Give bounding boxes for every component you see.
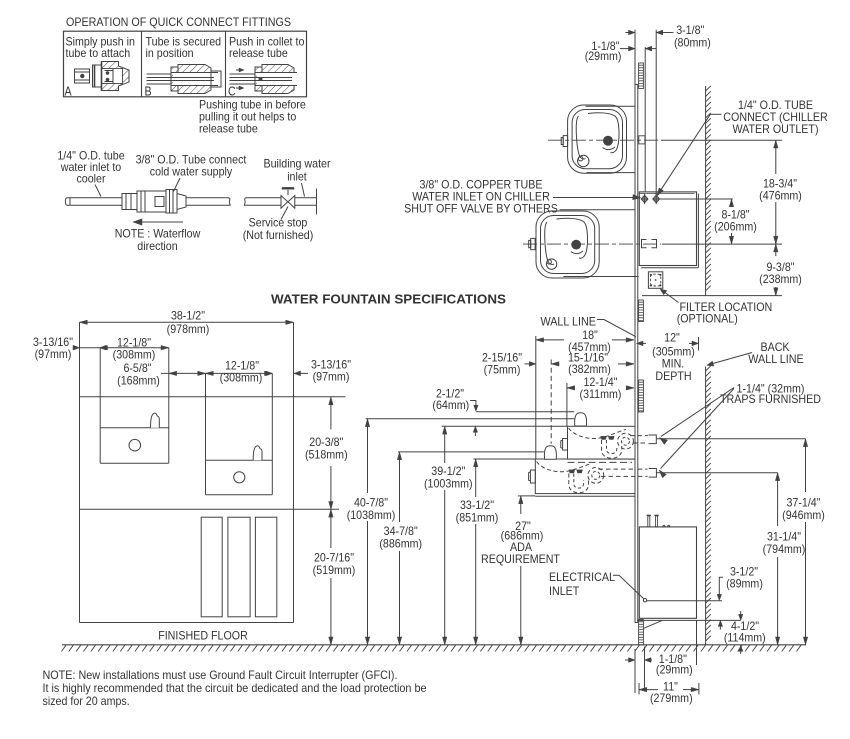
svg-text:OPERATION OF QUICK CONNECT FIT: OPERATION OF QUICK CONNECT FITTINGS bbox=[66, 15, 291, 29]
cabinet bottom edge bbox=[80, 622, 294, 624]
lower water connection dashes bbox=[642, 240, 647, 248]
diagonal base tick bbox=[643, 620, 662, 628]
svg-text:(64mm): (64mm) bbox=[432, 398, 469, 412]
upper basin left edge bbox=[99, 348, 101, 464]
lower unit top edge extension bbox=[474, 458, 536, 460]
fitting B body bbox=[178, 65, 211, 94]
upper centerline extension right bbox=[662, 139, 783, 141]
shut-off valve 2 bbox=[653, 195, 660, 202]
floor line bbox=[62, 644, 806, 646]
chiller bottom double line bbox=[637, 619, 741, 621]
leader copper tube to valve 1 bbox=[553, 197, 638, 199]
svg-text:(978mm): (978mm) bbox=[167, 322, 210, 336]
cabinet right edge bbox=[293, 397, 295, 623]
leader to lower trap bbox=[661, 389, 735, 469]
svg-text:C: C bbox=[228, 85, 236, 99]
upper drain plan bbox=[578, 155, 589, 166]
svg-text:(851mm): (851mm) bbox=[456, 510, 499, 524]
lower basin plan outline bbox=[536, 211, 599, 278]
mounting channel hatch mid1 bbox=[639, 300, 644, 322]
svg-text:NOTE: New installations must u: NOTE: New installations must use Ground … bbox=[43, 668, 398, 682]
louver slat 1 bbox=[201, 517, 222, 617]
building inlet tube bbox=[244, 198, 281, 206]
upper bubbler front view bbox=[151, 413, 160, 428]
lower basin bottom bbox=[206, 494, 273, 496]
filter box bbox=[648, 272, 662, 289]
svg-text:(238mm): (238mm) bbox=[759, 272, 802, 286]
lower trap dashed bbox=[569, 474, 589, 493]
svg-text:(946mm): (946mm) bbox=[782, 508, 825, 522]
dimension 31-1/4 (794mm) bbox=[777, 473, 779, 526]
lower bubbler side view bbox=[544, 446, 556, 460]
svg-text:(29mm): (29mm) bbox=[656, 662, 693, 676]
mounting channel line b bbox=[655, 30, 657, 195]
svg-text:release tube: release tube bbox=[229, 46, 288, 60]
cabinet top edge bbox=[80, 396, 346, 398]
lower drain circle bbox=[234, 472, 245, 483]
leader valve to service stop bbox=[281, 207, 288, 220]
dimension 20-3/8 (518mm) bbox=[330, 397, 332, 430]
back wall line upper segment bbox=[705, 86, 707, 296]
lower basin connect bottom bbox=[563, 276, 638, 278]
upper unit top edge extension bbox=[442, 425, 568, 427]
electrical inlet point bbox=[643, 599, 646, 602]
extension line 18 ref - unit front bbox=[535, 336, 537, 459]
svg-text:INLET: INLET bbox=[549, 584, 579, 598]
upper unit side box bbox=[568, 426, 636, 459]
lower basin left edge bbox=[205, 373, 207, 494]
svg-text:(518mm): (518mm) bbox=[305, 448, 348, 462]
svg-text:(476mm): (476mm) bbox=[759, 189, 802, 203]
shut-off valve line bbox=[659, 198, 733, 200]
leader to upper trap bbox=[661, 388, 734, 437]
31-1/4 reference line bbox=[656, 472, 777, 474]
svg-text:ELECTRICAL: ELECTRICAL bbox=[549, 570, 615, 584]
upper basin bottom bbox=[100, 462, 169, 464]
svg-text:WALL LINE: WALL LINE bbox=[541, 314, 596, 328]
fitting nut bbox=[166, 190, 177, 214]
fitting A body bbox=[102, 62, 130, 91]
svg-text:38-1/2": 38-1/2" bbox=[171, 309, 205, 323]
svg-text:(97mm): (97mm) bbox=[313, 370, 350, 384]
dimension 37-1/4 (946mm) bbox=[805, 439, 807, 492]
fitting C body bbox=[262, 65, 294, 94]
upper bubbler dot bbox=[604, 136, 613, 145]
dimension 33-1/2 (851mm) bbox=[475, 459, 477, 497]
upper water connection on wall bbox=[639, 136, 645, 144]
louver slat 3 bbox=[255, 517, 276, 617]
supply tube (3/8 inch) bbox=[186, 197, 229, 199]
leader to cooler tube bbox=[95, 185, 101, 197]
svg-text:FINISHED FLOOR: FINISHED FLOOR bbox=[158, 629, 248, 643]
extension line right cabinet bbox=[293, 322, 295, 397]
svg-text:12": 12" bbox=[664, 331, 680, 345]
lower spout height line (34-7/8 ref) bbox=[398, 451, 544, 453]
leader to fitting bbox=[174, 178, 181, 192]
upper centerline bbox=[548, 139, 662, 141]
dimension 40-7/8 (1038mm) bbox=[367, 419, 369, 493]
svg-text:It is highly recommended that: It is highly recommended that the circui… bbox=[43, 681, 427, 695]
svg-text:(308mm): (308mm) bbox=[220, 370, 263, 384]
wall line leader bbox=[597, 319, 604, 321]
upper basin right edge bbox=[168, 348, 170, 464]
svg-text:(886mm): (886mm) bbox=[379, 537, 422, 551]
lower button plan bbox=[531, 238, 535, 249]
upper drain fitting bbox=[601, 436, 607, 439]
lower drain fitting bbox=[569, 470, 575, 473]
svg-text:B: B bbox=[145, 85, 152, 99]
lower basin connect top bbox=[560, 209, 636, 211]
service stop valve bbox=[281, 196, 288, 209]
chiller top pins bbox=[648, 516, 650, 527]
electrical leader bbox=[613, 574, 619, 576]
lower basin interior dashed bbox=[537, 462, 591, 472]
svg-text:SHUT OFF VALVE BY OTHERS: SHUT OFF VALVE BY OTHERS bbox=[404, 202, 558, 216]
37-1/4 reference line bbox=[656, 438, 805, 440]
quick-connect panel box bbox=[64, 31, 307, 97]
upper unit button bbox=[563, 439, 568, 451]
svg-text:(308mm): (308mm) bbox=[113, 348, 156, 362]
chiller box lower view bbox=[639, 527, 696, 618]
wall panel back line bbox=[637, 85, 639, 623]
lower centerline extension right bbox=[662, 243, 782, 245]
27 ada bottom reference bbox=[518, 495, 535, 497]
unit bottom reference line bbox=[642, 295, 782, 297]
panel divider 1 bbox=[141, 31, 143, 97]
mounting channel hatch mid2 bbox=[639, 380, 644, 412]
svg-text:(97mm): (97mm) bbox=[35, 347, 72, 361]
lower trap wall stub bbox=[649, 469, 657, 478]
tube after valve bbox=[295, 197, 316, 199]
extension line left cabinet bbox=[79, 322, 81, 397]
lower trap outlet dashed bbox=[599, 468, 635, 470]
svg-text:(519mm): (519mm) bbox=[313, 563, 356, 577]
dimension 9-3/8 (238mm) bbox=[775, 244, 777, 256]
svg-text:(75mm): (75mm) bbox=[484, 363, 521, 377]
upper basin plan outline bbox=[568, 105, 627, 173]
electrical inlet line bbox=[647, 600, 722, 602]
2-1/2 partner arrow bbox=[473, 426, 477, 432]
cabinet left edge bbox=[79, 397, 81, 623]
lower drain plan bbox=[546, 259, 556, 269]
panel foot bbox=[635, 622, 638, 624]
lower unit button bbox=[530, 470, 535, 483]
svg-text:direction: direction bbox=[137, 239, 177, 253]
upper trap wall stub bbox=[649, 435, 657, 444]
svg-text:(80mm): (80mm) bbox=[674, 35, 711, 49]
svg-text:Building water: Building water bbox=[263, 157, 330, 171]
lower unit side box bbox=[535, 459, 635, 494]
lower centerline bbox=[523, 243, 661, 245]
svg-text:REQUIREMENT: REQUIREMENT bbox=[481, 552, 560, 566]
extension line 12-1/4 ref bbox=[566, 383, 568, 426]
svg-text:DEPTH: DEPTH bbox=[655, 369, 691, 383]
shut-off valve 1 bbox=[641, 195, 648, 202]
extension dashed line bubbler center bbox=[550, 360, 552, 444]
svg-text:(168mm): (168mm) bbox=[117, 373, 160, 387]
svg-text:cold water supply: cold water supply bbox=[150, 165, 233, 179]
quick connect fitting body bbox=[122, 194, 137, 210]
back wall leader bbox=[709, 353, 752, 365]
back wall line lower segment bbox=[705, 367, 707, 645]
upper unit hidden bottom dashed bbox=[568, 461, 633, 463]
mounting channel hatch bottom bbox=[639, 620, 644, 645]
dimension 18-3/4 (476mm) bbox=[775, 140, 777, 174]
svg-text:A: A bbox=[65, 85, 73, 99]
svg-text:(89mm): (89mm) bbox=[726, 577, 763, 591]
svg-text:(206mm): (206mm) bbox=[714, 220, 757, 234]
lower bubbler dot bbox=[572, 240, 581, 249]
svg-text:tube to attach: tube to attach bbox=[66, 46, 131, 60]
svg-text:WALL LINE: WALL LINE bbox=[748, 352, 804, 366]
upper bubbler top line (2-1/2 ref) bbox=[476, 411, 574, 413]
mounting channel hatch top bbox=[639, 63, 644, 89]
svg-text:in position: in position bbox=[146, 46, 194, 60]
svg-text:(279mm): (279mm) bbox=[650, 691, 693, 705]
cooler tube (1/4 inch) bbox=[65, 198, 122, 206]
upper trap dashed bbox=[602, 440, 622, 458]
upper basin interior dashed bbox=[569, 428, 627, 438]
mounting channel line a bbox=[644, 47, 646, 192]
svg-text:TRAPS FURNISHED: TRAPS FURNISHED bbox=[720, 392, 821, 406]
svg-text:(1038mm): (1038mm) bbox=[347, 508, 396, 522]
lower bubbler front view bbox=[253, 446, 262, 461]
svg-text:(Not furnished): (Not furnished) bbox=[243, 228, 314, 242]
wall tick at building inlet bbox=[316, 189, 318, 215]
svg-text:(382mm): (382mm) bbox=[568, 362, 611, 376]
svg-text:(114mm): (114mm) bbox=[724, 630, 766, 644]
louver slat 2 bbox=[228, 517, 250, 617]
lower basin right edge bbox=[271, 373, 273, 494]
dimension 34-7/8 (886mm) bbox=[399, 452, 401, 522]
waterflow direction arrow bbox=[137, 221, 183, 223]
upper basin connect bottom bbox=[587, 172, 636, 174]
svg-text:WATER FOUNTAIN SPECIFICATIONS: WATER FOUNTAIN SPECIFICATIONS bbox=[271, 292, 506, 307]
svg-text:(311mm): (311mm) bbox=[580, 387, 622, 401]
dimension 27 ADA requirement bbox=[520, 496, 522, 514]
svg-text:(OPTIONAL): (OPTIONAL) bbox=[677, 311, 738, 325]
dimension 39-1/2 (1003mm) bbox=[444, 426, 446, 463]
svg-text:cooler: cooler bbox=[76, 172, 105, 186]
dimension 8-1/8 (206mm) bbox=[731, 199, 733, 205]
lower basin top front edge bbox=[206, 459, 273, 461]
upper button plan bbox=[563, 136, 567, 147]
dimension 20-7/16 (519mm) bbox=[330, 509, 332, 548]
svg-text:WATER OUTLET): WATER OUTLET) bbox=[733, 122, 819, 136]
upper basin top front edge bbox=[100, 427, 169, 429]
upper spout height line (40-7/8 ref) bbox=[366, 418, 575, 420]
fitting A tube piece bbox=[75, 69, 90, 83]
svg-text:inlet: inlet bbox=[287, 170, 307, 184]
leader to inlet tube bbox=[302, 183, 305, 197]
upper trap outlet dashed bbox=[630, 435, 648, 437]
filter leader bbox=[662, 290, 679, 303]
svg-text:release tube: release tube bbox=[199, 122, 258, 136]
leader chiller outlet to valve 2 bbox=[710, 113, 721, 115]
svg-text:(29mm): (29mm) bbox=[585, 49, 622, 63]
floor hatching bbox=[61, 645, 801, 651]
svg-text:(794mm): (794mm) bbox=[763, 542, 806, 556]
panel divider 2 bbox=[225, 31, 227, 97]
cabinet middle line bbox=[80, 508, 340, 510]
wall panel front line bbox=[634, 30, 636, 623]
upper bubbler side view bbox=[575, 413, 587, 426]
svg-text:(1003mm): (1003mm) bbox=[424, 476, 473, 490]
upper drain circle bbox=[129, 439, 141, 451]
chiller box upper view bbox=[639, 192, 696, 266]
svg-text:sized for 20 amps.: sized for 20 amps. bbox=[43, 694, 130, 708]
upper basin connect top bbox=[586, 105, 636, 107]
